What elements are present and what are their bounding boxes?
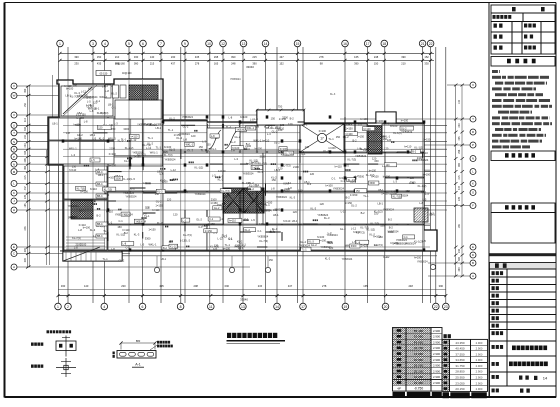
svg-text:13: 13 [242, 42, 246, 46]
hui qian blobs [512, 7, 516, 11]
page border [5, 2, 557, 4]
svg-text:BB-C: BB-C [97, 171, 103, 174]
svg-text:230: 230 [171, 55, 176, 59]
svg-text:435: 435 [97, 61, 102, 65]
svg-text:278: 278 [319, 55, 324, 59]
svg-text:9: 9 [184, 42, 186, 46]
svg-text:L-12: L-12 [222, 235, 228, 239]
detail2 symbol [65, 358, 67, 377]
svg-text:150: 150 [356, 190, 361, 193]
svg-text:KL-2: KL-2 [271, 176, 277, 180]
svg-text:GL-2: GL-2 [156, 199, 162, 203]
svg-text:KL-7(3): KL-7(3) [393, 195, 402, 198]
svg-text:GL-2: GL-2 [184, 238, 190, 242]
interior main horizontals [63, 169, 430, 171]
svg-text:V: V [13, 113, 15, 117]
svg-text:b=100: b=100 [109, 164, 117, 168]
svg-text:E: E [13, 245, 15, 249]
svg-text:KL-3: KL-3 [134, 232, 140, 236]
svg-text:KL-2: KL-2 [245, 229, 251, 232]
svg-text:248: 248 [458, 248, 461, 253]
svg-text:390: 390 [74, 55, 79, 59]
svg-text:17: 17 [301, 305, 305, 309]
svg-text:YKB3624: YKB3624 [87, 95, 99, 99]
svg-text:h=110: h=110 [90, 187, 98, 191]
svg-text:WKL-1: WKL-1 [99, 95, 107, 99]
svg-text:38.080: 38.080 [414, 364, 424, 368]
svg-text:LB-1: LB-1 [156, 126, 162, 130]
svg-text:b=100: b=100 [75, 136, 83, 140]
svg-text:1=150: 1=150 [357, 135, 365, 139]
svg-text:YKB3624: YKB3624 [355, 154, 367, 158]
svg-text:49.680: 49.680 [414, 340, 424, 344]
svg-text:248: 248 [374, 55, 379, 59]
right table col1 floor marks [444, 341, 448, 344]
svg-text:437: 437 [458, 185, 461, 190]
svg-text:L-5: L-5 [391, 190, 395, 194]
svg-text:YKB3624: YKB3624 [182, 115, 194, 119]
svg-text:L-12: L-12 [180, 239, 186, 243]
svg-text:YKB3624: YKB3624 [122, 213, 133, 216]
svg-text:h=110: h=110 [353, 230, 361, 234]
left dim inner lines [46, 150, 48, 265]
svg-text:A: A [13, 265, 15, 269]
svg-text:B-2: B-2 [290, 117, 295, 121]
svg-text:1=150: 1=150 [148, 228, 156, 232]
svg-text:KL-2: KL-2 [245, 209, 251, 213]
svg-text:8: 8 [180, 305, 182, 309]
svg-text:GL-2: GL-2 [129, 187, 135, 191]
svg-text:WKL-1: WKL-1 [185, 144, 193, 147]
svg-text:090: 090 [134, 61, 139, 65]
svg-text:LB-1: LB-1 [378, 188, 384, 192]
svg-text:150: 150 [224, 195, 229, 199]
svg-text:2100: 2100 [211, 197, 217, 201]
svg-text:GL-2: GL-2 [383, 121, 389, 125]
svg-text:437: 437 [24, 186, 27, 191]
svg-text:1=150: 1=150 [282, 189, 290, 193]
svg-text:390: 390 [458, 256, 461, 261]
svg-text:B-2: B-2 [412, 151, 417, 154]
svg-text:KL-7(3): KL-7(3) [360, 226, 369, 230]
svg-text:152: 152 [424, 55, 429, 59]
svg-text:L-3: L-3 [114, 121, 118, 125]
svg-text:LB-1: LB-1 [274, 168, 280, 172]
svg-text:TL-1: TL-1 [421, 190, 427, 194]
bottom dim thin line [58, 288, 446, 290]
svg-text:KL-7(3): KL-7(3) [77, 187, 86, 190]
svg-text:YKB3024: YKB3024 [299, 244, 311, 248]
svg-text:b=100: b=100 [107, 175, 115, 179]
svg-text:215: 215 [24, 175, 27, 180]
svg-text:2100: 2100 [80, 242, 86, 246]
svg-text:40.450: 40.450 [455, 347, 465, 351]
svg-text:h=110: h=110 [229, 220, 236, 223]
svg-text:435: 435 [24, 150, 27, 155]
svg-text:120: 120 [288, 122, 293, 126]
svg-text:14: 14 [264, 42, 268, 46]
left table black header row [393, 392, 406, 398]
svg-text:2.900: 2.900 [476, 352, 483, 356]
detail1 symbol [56, 341, 76, 351]
svg-text:LB-1: LB-1 [429, 212, 435, 216]
svg-text:L-8: L-8 [66, 131, 70, 135]
svg-text:150: 150 [273, 208, 278, 212]
svg-text:18: 18 [382, 42, 386, 46]
svg-text:GL-2: GL-2 [272, 130, 278, 134]
top dim boxed pair [96, 71, 111, 76]
svg-text:WKL-1: WKL-1 [258, 202, 266, 206]
right dimension verticals [455, 85, 457, 276]
svg-text:GL-2: GL-2 [158, 122, 164, 126]
svg-text:L-5: L-5 [160, 172, 164, 176]
svg-text:b=100: b=100 [280, 148, 288, 151]
svg-text:b=100: b=100 [77, 116, 85, 120]
svg-text:L-3: L-3 [71, 153, 75, 157]
svg-text:b=100: b=100 [240, 115, 248, 119]
svg-text:2.900: 2.900 [476, 370, 483, 374]
biaozhun label [31, 343, 43, 346]
svg-text:C-1: C-1 [257, 229, 262, 233]
svg-text:B: B [472, 261, 474, 265]
svg-text:KL-7(3): KL-7(3) [360, 147, 369, 151]
svg-text:L-5: L-5 [251, 218, 255, 222]
svg-text:3300: 3300 [358, 175, 364, 179]
svg-text:L-8: L-8 [419, 201, 423, 205]
svg-text:KL-2: KL-2 [169, 116, 175, 120]
svg-text:L-12: L-12 [341, 210, 347, 214]
header2 blobs [505, 153, 535, 157]
svg-text:43.880: 43.880 [414, 352, 424, 356]
svg-text:YKB3024: YKB3024 [125, 194, 137, 198]
svg-text:28.850: 28.850 [455, 370, 465, 374]
right protrusion [376, 112, 396, 123]
svg-text:b=100: b=100 [364, 128, 372, 131]
svg-text:KL-2: KL-2 [325, 257, 331, 260]
svg-text:WKL-1: WKL-1 [150, 150, 158, 154]
svg-text:P: P [13, 155, 15, 159]
slab left label [113, 352, 115, 355]
svg-text:h=110: h=110 [283, 219, 291, 223]
svg-text:LB-1: LB-1 [161, 258, 167, 261]
svg-text:KL-1(2): KL-1(2) [393, 131, 402, 135]
row labels [494, 24, 503, 28]
svg-text:17: 17 [320, 137, 324, 141]
svg-text:P: P [472, 143, 474, 147]
svg-text:L-3: L-3 [393, 180, 397, 184]
svg-text:11: 11 [209, 305, 213, 309]
hatch H3 elevator [223, 188, 264, 213]
svg-text:1=150: 1=150 [423, 137, 431, 141]
svg-text:3300: 3300 [115, 177, 121, 180]
svg-text:210: 210 [401, 61, 406, 65]
svg-text:YKB3024: YKB3024 [261, 208, 273, 212]
svg-text:34.650: 34.650 [455, 358, 465, 362]
svg-text:b=100: b=100 [423, 173, 431, 177]
svg-text:KL-3: KL-3 [157, 221, 163, 225]
svg-text:L-8: L-8 [249, 192, 253, 196]
svg-text:40.980: 40.980 [414, 358, 424, 362]
small blob specks [92, 201, 95, 203]
svg-text:13: 13 [241, 305, 245, 309]
svg-text:120: 120 [305, 145, 310, 149]
bottom dim main line [58, 295, 446, 297]
svg-text:150: 150 [374, 159, 379, 163]
svg-text:LB-1: LB-1 [304, 180, 310, 184]
svg-text:KL-2: KL-2 [99, 137, 105, 141]
svg-text:KL-3: KL-3 [124, 159, 130, 163]
svg-text:090: 090 [458, 162, 461, 167]
notes header blobs [507, 59, 536, 64]
svg-text:X: X [472, 83, 474, 87]
svg-text:437: 437 [171, 61, 176, 65]
svg-text:L-5: L-5 [422, 239, 426, 243]
svg-text:40@160: 40@160 [115, 62, 125, 66]
svg-text:h=110: h=110 [106, 209, 114, 213]
svg-text:437: 437 [279, 55, 284, 59]
svg-text:h=100: h=100 [414, 257, 422, 260]
svg-text:880: 880 [136, 339, 141, 343]
svg-text:2100: 2100 [260, 154, 266, 158]
left storey table [393, 328, 443, 392]
svg-text:14: 14 [275, 305, 279, 309]
svg-text:390: 390 [354, 61, 359, 65]
svg-text:h=100: h=100 [371, 175, 379, 179]
left axis circles [11, 83, 17, 89]
svg-text:6: 6 [142, 305, 144, 309]
svg-text:3300: 3300 [69, 215, 75, 219]
svg-text:KL-1(2): KL-1(2) [414, 146, 423, 150]
svg-text:7: 7 [160, 42, 162, 46]
svg-text:YKB3024: YKB3024 [276, 195, 288, 199]
svg-text:1=150: 1=150 [345, 126, 353, 130]
svg-text:390: 390 [439, 284, 444, 288]
svg-text:278: 278 [195, 61, 200, 65]
svg-text:KL-3: KL-3 [90, 228, 96, 232]
svg-text:B-2: B-2 [361, 211, 366, 215]
svg-text:YKB3024: YKB3024 [388, 230, 400, 234]
svg-text:3: 3 [92, 42, 94, 46]
svg-text:h=110: h=110 [131, 136, 138, 139]
svg-text:3300: 3300 [145, 236, 151, 240]
svg-text:KL-7(3): KL-7(3) [164, 153, 173, 157]
svg-text:B-2: B-2 [388, 217, 393, 221]
notes text lines [492, 70, 498, 73]
svg-text:L-8: L-8 [228, 116, 232, 120]
building outline [48, 79, 437, 261]
svg-text:1=150: 1=150 [231, 190, 239, 194]
svg-text:YKB3624: YKB3624 [327, 233, 339, 237]
svg-text:YKB3624: YKB3624 [230, 78, 241, 81]
svg-text:KL-1(2): KL-1(2) [195, 166, 204, 170]
svg-text:KL-7(3): KL-7(3) [259, 239, 268, 243]
title block top [491, 5, 555, 54]
svg-text:A-1: A-1 [135, 363, 141, 367]
svg-text:165: 165 [214, 61, 219, 65]
bottom axis circles [55, 303, 62, 310]
bottom offset line [63, 255, 437, 257]
hatch H1 [129, 85, 158, 100]
svg-text:4: 4 [103, 305, 105, 309]
svg-text:WKL-1: WKL-1 [148, 243, 156, 247]
svg-text:21: 21 [421, 42, 425, 46]
svg-text:150: 150 [336, 135, 341, 139]
svg-text:3300: 3300 [282, 115, 288, 119]
svg-text:KL-1(2): KL-1(2) [125, 146, 134, 150]
svg-text:L-8: L-8 [123, 243, 127, 246]
svg-text:GL-2: GL-2 [269, 230, 275, 234]
left wing boxed labels [96, 170, 107, 174]
svg-text:KL-7(3): KL-7(3) [70, 94, 79, 98]
svg-text:h=110: h=110 [335, 164, 343, 168]
svg-text:F: F [472, 204, 474, 208]
svg-text:120: 120 [167, 197, 172, 201]
svg-text:4/F: 4/F [397, 387, 401, 391]
svg-text:3300: 3300 [327, 241, 333, 245]
svg-text:2: 2 [67, 305, 69, 309]
svg-text:150: 150 [24, 103, 27, 108]
svg-text:390: 390 [24, 258, 27, 263]
top-left block diagonal [63, 87, 92, 114]
svg-text:120: 120 [320, 202, 325, 206]
svg-text:2.900: 2.900 [433, 335, 440, 339]
svg-text:16: 16 [343, 42, 347, 46]
svg-text:KL-3: KL-3 [157, 190, 163, 193]
svg-text:h=100: h=100 [317, 235, 325, 239]
svg-text:KL-3: KL-3 [309, 241, 315, 244]
svg-text:435: 435 [159, 284, 164, 288]
svg-text:YKB3624: YKB3624 [177, 190, 189, 194]
svg-text:750: 750 [278, 105, 283, 109]
right panel divider [488, 3, 490, 398]
svg-text:140: 140 [84, 284, 89, 288]
svg-text:2.900: 2.900 [476, 341, 483, 345]
svg-text:L-8: L-8 [111, 247, 115, 251]
bottom title block [490, 263, 557, 398]
svg-text:h=100: h=100 [343, 122, 351, 126]
svg-text:437: 437 [288, 284, 293, 288]
svg-text:L-12: L-12 [81, 89, 87, 93]
svg-text:L-5: L-5 [345, 163, 349, 167]
svg-text:090: 090 [24, 165, 27, 170]
svg-text:52.580: 52.580 [414, 335, 424, 339]
svg-text:C-1: C-1 [112, 106, 117, 110]
svg-text:LB-1: LB-1 [292, 219, 298, 223]
svg-text:43.350: 43.350 [455, 341, 465, 345]
svg-text:C-1: C-1 [119, 219, 124, 223]
axis horizontal grid lines [17, 85, 163, 87]
svg-text:120: 120 [387, 138, 392, 142]
svg-text:YKB3024: YKB3024 [195, 192, 207, 196]
slab leader text [150, 345, 158, 351]
svg-text:GL-2: GL-2 [183, 125, 189, 129]
svg-text:E: E [472, 245, 474, 249]
svg-text:C-1: C-1 [301, 152, 306, 156]
svg-text:LB-1: LB-1 [377, 202, 383, 206]
svg-text:05 150: 05 150 [100, 72, 108, 75]
faint grid through rooms [58, 80, 60, 250]
svg-text:L-8: L-8 [90, 109, 94, 113]
svg-text:L-5: L-5 [131, 177, 135, 181]
svg-text:150: 150 [111, 127, 116, 131]
proj name [512, 346, 547, 351]
svg-text:298: 298 [214, 55, 219, 59]
svg-text:L-12: L-12 [86, 103, 92, 107]
svg-text:22: 22 [429, 42, 433, 46]
svg-text:TL-1: TL-1 [168, 128, 174, 132]
svg-text:1=150: 1=150 [174, 133, 182, 137]
svg-text:KL-7(3): KL-7(3) [100, 111, 109, 115]
svg-text:WKL-1: WKL-1 [253, 139, 261, 143]
top dimension line 1 [60, 52, 434, 54]
svg-text:TL-1: TL-1 [363, 194, 369, 198]
svg-text:S: S [13, 140, 15, 144]
svg-text:150: 150 [97, 55, 102, 59]
svg-text:3300: 3300 [369, 182, 375, 185]
svg-text:h=100: h=100 [246, 162, 254, 166]
bay strip [257, 110, 304, 125]
curve rooms [207, 128, 223, 151]
main title [227, 333, 277, 338]
svg-text:L-5: L-5 [183, 219, 187, 222]
svg-text:2.900: 2.900 [476, 375, 483, 379]
hatch H6 [414, 208, 428, 222]
svg-text:L-3: L-3 [267, 132, 271, 136]
X-box room with marker 17 [300, 124, 344, 152]
svg-text:L-8: L-8 [183, 137, 187, 141]
svg-text:LB-1: LB-1 [94, 106, 100, 110]
svg-text:GL-2: GL-2 [79, 209, 85, 213]
svg-text:GL-2: GL-2 [214, 207, 220, 210]
random heavy wall stubs [266, 124, 276, 126]
svg-text:2.900: 2.900 [476, 381, 483, 385]
svg-text:BB-C: BB-C [97, 235, 103, 238]
svg-text:2100: 2100 [109, 147, 115, 151]
svg-text:YKB3024: YKB3024 [417, 260, 428, 263]
svg-text:KL-1(2): KL-1(2) [117, 233, 126, 237]
svg-text:T: T [472, 117, 474, 121]
svg-text:23.050: 23.050 [455, 381, 465, 385]
svg-text:090: 090 [225, 284, 230, 288]
svg-text:h=110: h=110 [262, 138, 270, 142]
svg-text:1=150: 1=150 [345, 201, 353, 205]
svg-text:KL-7(3): KL-7(3) [284, 152, 293, 155]
svg-text:KL-3: KL-3 [330, 93, 336, 96]
svg-text:KL-1(2): KL-1(2) [418, 184, 427, 188]
svg-text:YKB3024: YKB3024 [405, 242, 417, 246]
svg-text:C-1: C-1 [209, 218, 214, 221]
svg-text:298: 298 [24, 158, 27, 163]
svg-text:150: 150 [374, 61, 379, 65]
empty box under header3 [491, 213, 555, 244]
svg-text:2.900: 2.900 [433, 329, 440, 333]
svg-text:b=100: b=100 [346, 133, 354, 136]
svg-text:KL-7(3): KL-7(3) [221, 190, 230, 193]
columns [206, 115, 209, 118]
svg-text:390: 390 [401, 55, 406, 59]
hollow core slab section [117, 351, 156, 359]
svg-text:h=110: h=110 [79, 223, 87, 227]
detail1 title [47, 330, 72, 333]
svg-text:230: 230 [121, 284, 126, 288]
svg-text:435: 435 [458, 136, 461, 141]
svg-text:KL-1(2): KL-1(2) [137, 152, 146, 156]
svg-text:LB-1: LB-1 [202, 224, 208, 228]
svg-text:5: 5 [128, 42, 130, 46]
svg-text:120: 120 [259, 222, 264, 226]
svg-text:TL-1: TL-1 [103, 258, 109, 261]
svg-text:120: 120 [98, 127, 103, 130]
